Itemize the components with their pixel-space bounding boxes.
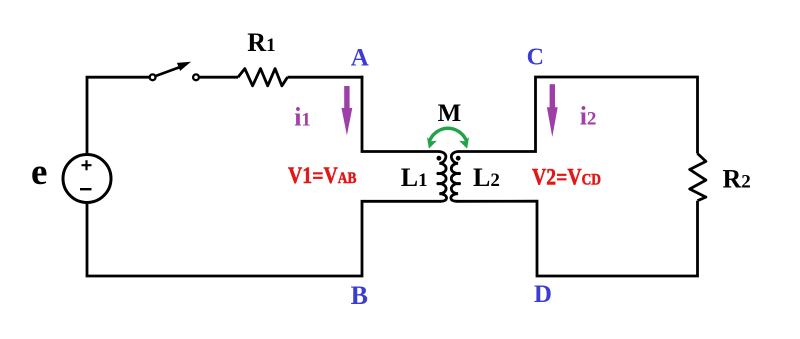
svg-text:B: B [351, 281, 368, 310]
mutual inductance arrow M [427, 128, 469, 148]
wire L2 top to node C and right top rail [459, 77, 698, 154]
resistor R1 [238, 69, 288, 86]
inductor L1 [438, 152, 447, 202]
svg-text:A: A [351, 44, 369, 71]
svg-text:D: D [534, 281, 552, 308]
wire from R1 to node A [288, 76, 364, 79]
current arrow i2 [547, 84, 558, 137]
svg-text:C: C [527, 45, 544, 71]
switch S1 [150, 62, 199, 80]
wire L1 bottom back to node B corner [87, 201, 441, 276]
svg-text:e: e [31, 152, 47, 193]
polarity dot L2 [456, 156, 461, 161]
current arrow i1 [342, 86, 353, 135]
polarity dot L1 [437, 156, 442, 161]
wire node A down to L1 top [362, 76, 439, 152]
inductor L2 [451, 152, 460, 202]
resistor R2 [690, 154, 706, 201]
svg-text:M: M [438, 100, 462, 127]
wire from switch to resistor R1 [199, 76, 238, 79]
voltage source e [63, 155, 111, 203]
wire left top horizontal from source to switch [87, 77, 150, 153]
wire R2 bottom to node D and L2 bottom [457, 201, 698, 276]
